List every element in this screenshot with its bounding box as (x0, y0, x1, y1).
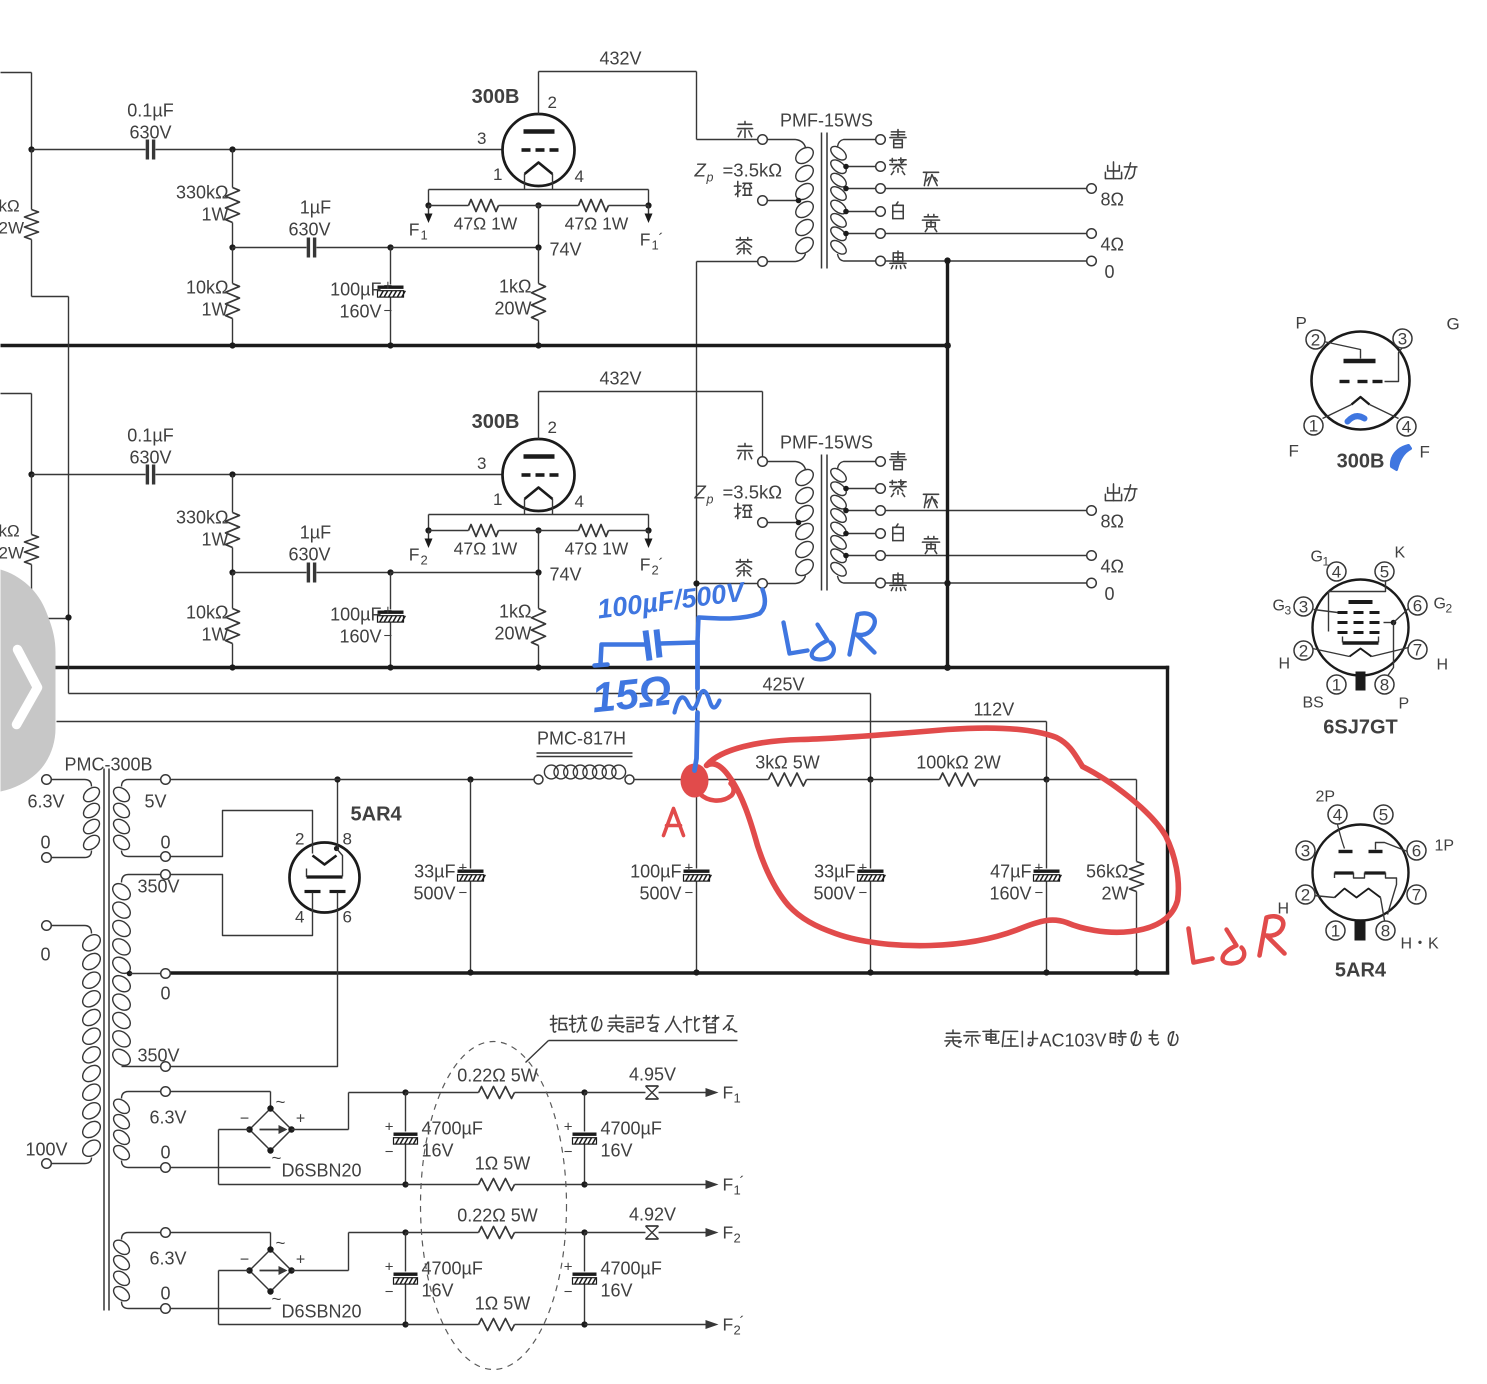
svg-text:0: 0 (1105, 584, 1115, 604)
terminal ch2 8Ω tap 灰 (876, 506, 886, 516)
pinout 300B plate bar and pin2 link (1344, 359, 1376, 363)
svg-text:0: 0 (161, 1284, 171, 1304)
svg-text:1P: 1P (1435, 838, 1455, 855)
svg-text:20W: 20W (494, 299, 531, 319)
svg-text:160V: 160V (989, 884, 1031, 904)
pinout 5AR4 diagram (1278, 789, 1455, 982)
svg-text:630V: 630V (129, 448, 171, 468)
blue annotation wire from 茶 down to added cap (700, 590, 765, 619)
terminal ch2 青 (876, 457, 886, 467)
svg-text:3: 3 (477, 454, 486, 473)
resistor ch2 hum-balance left 47Ω 1W (429, 530, 469, 532)
svg-text:F: F (723, 1223, 734, 1243)
svg-text:1: 1 (1309, 417, 1318, 436)
node ch2 filament center tap (535, 527, 541, 533)
fuse/measure point 4.95V (585, 1092, 646, 1094)
wire bridge 2 − output (219, 1270, 250, 1272)
label ch1 出力 outputs (1105, 162, 1121, 179)
svg-text:F: F (409, 545, 420, 565)
leader line for swap note (526, 1041, 549, 1063)
resistor ch1 divider lower 10kΩ 1W (232, 248, 234, 284)
terminal ch2 紫 (876, 484, 886, 494)
svg-text:300B: 300B (1337, 451, 1385, 473)
svg-text:1: 1 (1332, 676, 1341, 695)
svg-text:P: P (1296, 314, 1307, 333)
wire ch2 filament pins 1,4 (524, 499, 526, 515)
pinout 6SJ7GT pin 3 (1294, 597, 1313, 616)
svg-text:16V: 16V (601, 1281, 633, 1301)
wire ch1 茶 to B+ riser (697, 261, 758, 263)
transformer ch2 secondary winding (838, 462, 876, 469)
wire ch1 4Ω output (886, 233, 1087, 235)
terminal ch1 茶 primary B+ (758, 257, 768, 267)
fuse/measure point 4.92V (585, 1232, 646, 1234)
pinout 5AR4 pin 3 (1296, 841, 1315, 860)
pinout 5AR4 pin 8 (1376, 921, 1395, 940)
node ch2 10k bottom on ground bus (229, 664, 235, 670)
blue annotation added capacitor symbol (698, 618, 699, 642)
svg-text:100µF: 100µF (630, 862, 681, 882)
terminal ch2 橙 primary tap (758, 518, 768, 528)
svg-text:2W: 2W (0, 544, 24, 563)
svg-text:4: 4 (575, 167, 584, 186)
svg-text:PMF-15WS: PMF-15WS (780, 111, 873, 131)
node ch2 0-line to ground drop (944, 580, 950, 586)
svg-text:G: G (1434, 596, 1446, 613)
transformer PMC-300B core (103, 769, 105, 1311)
resistor ch1 grid leak 330kΩ 1W (232, 150, 234, 188)
svg-text:6SJ7GT: 6SJ7GT (1323, 717, 1397, 739)
svg-text:300B: 300B (472, 411, 520, 433)
svg-text:−: − (385, 1144, 394, 1161)
svg-text:1kΩ: 1kΩ (499, 602, 531, 622)
svg-text:0: 0 (161, 833, 171, 853)
svg-text:15Ω: 15Ω (590, 666, 674, 721)
svg-text:=3.5kΩ: =3.5kΩ (723, 160, 783, 181)
transformer PMC-300B secondary 6.3V winding B (161, 1228, 171, 1238)
transformer ch1 secondary winding (838, 140, 876, 147)
node ch1 100µF top (387, 244, 393, 250)
svg-text:−: − (240, 1111, 249, 1128)
capacitor ch1 bypass 100µF 160V (390, 248, 392, 285)
wire B+ riser from 茶 terminals down to node A (432V) (696, 262, 698, 780)
svg-text:G: G (1311, 549, 1323, 566)
svg-text:2: 2 (548, 418, 557, 437)
capacitor PSU 33µF 500V second (870, 780, 872, 869)
svg-text:+: + (296, 1111, 305, 1128)
pinout 300B pin 3 (1393, 329, 1412, 348)
node ch1 1k bottom on bus (535, 342, 541, 348)
wire ch2 plate pin2 to output transformer (538, 392, 540, 440)
ground drop from output 0 lines (thick) (946, 261, 949, 669)
svg-text:F: F (723, 1083, 734, 1103)
capacitor PSU 33µF 500V first (467, 776, 473, 782)
svg-text:−: − (1035, 885, 1044, 902)
svg-text:33µF: 33µF (814, 862, 855, 882)
wire ch2 0 output (886, 582, 1087, 584)
pinout 6SJ7GT pin 7 (1408, 640, 1427, 659)
svg-text:H: H (1279, 656, 1291, 673)
svg-text:47Ω 1W: 47Ω 1W (565, 214, 629, 234)
svg-text:−: − (384, 303, 393, 320)
arrow ch1 to F1´ (648, 206, 650, 214)
svg-text:330kΩ: 330kΩ (176, 183, 229, 203)
wire ch1 0 output (886, 260, 1087, 262)
svg-text:47Ω 1W: 47Ω 1W (454, 214, 518, 234)
node ch2 filament right F' (645, 527, 651, 533)
svg-text:1W: 1W (202, 530, 229, 550)
capacitor PSU 100µF 500V at node A (696, 780, 698, 869)
terminal ch1 4Ω tap 黄 (876, 229, 886, 239)
wire ch2 1µF line to 74V node (391, 572, 539, 574)
svg-text:6: 6 (1412, 842, 1421, 861)
svg-text:+: + (296, 1252, 305, 1269)
svg-text:~: ~ (272, 1290, 282, 1309)
svg-text:500V: 500V (413, 884, 455, 904)
wire 5AR4 pin 8 to B+ rail (337, 780, 339, 848)
svg-text:D6SBN20: D6SBN20 (282, 1161, 362, 1181)
pinout 5AR4 pin 5 (1374, 805, 1393, 824)
transformer ch1 core (821, 133, 823, 269)
svg-text:F: F (723, 1175, 734, 1195)
gray navigation overlay with chevron (1, 570, 56, 792)
svg-text:4: 4 (1332, 563, 1341, 582)
pinout 300B grid dashes and pin3 link (1340, 380, 1350, 383)
wire ch1 driver plate input from left edge (1, 72, 32, 74)
resistor PSU 100kΩ 2W (871, 779, 940, 781)
tube 5AR4 rectifier (290, 843, 360, 913)
svg-text:2W: 2W (0, 219, 24, 238)
node ch2 100µF bottom on bus (387, 664, 393, 670)
svg-text:1: 1 (493, 490, 502, 509)
arrow ch2 to F2´ (648, 531, 650, 539)
wire bridge 1 + output (292, 1129, 349, 1131)
svg-text:5AR4: 5AR4 (1335, 960, 1387, 982)
pinout 6SJ7GT pin 8 (1375, 675, 1394, 694)
wire B+ rail from 5V winding through filter (171, 779, 535, 781)
wire ch1 B+ riser jog (32, 296, 69, 298)
capacitor ch2 bypass 100µF 160V (390, 573, 392, 610)
svg-text:2W: 2W (1102, 884, 1129, 904)
svg-text:2: 2 (734, 1231, 741, 1246)
label 表示電圧はAC103V時のもの (945, 1030, 961, 1047)
pinout 6SJ7GT cathode bar (1343, 641, 1379, 645)
svg-text:47µF: 47µF (990, 862, 1031, 882)
svg-text:Z: Z (694, 160, 707, 181)
pinout 300B pin 2 (1306, 330, 1325, 349)
resistor ch2 driver plate load (kΩ 2W, cut at edge) (31, 475, 33, 535)
wire 112V screen feed line (57, 721, 1047, 723)
svg-text:+: + (384, 603, 393, 620)
wire ch2 driver plate input from left edge (1, 393, 32, 395)
terminal ch1 紫 (876, 162, 886, 172)
svg-text:4700µF: 4700µF (422, 1119, 483, 1139)
svg-text:G: G (1447, 315, 1460, 334)
node ch1 filament left F (425, 202, 431, 208)
svg-text:16V: 16V (422, 1281, 454, 1301)
wire ch1 grid line to 300B pin 3 (233, 149, 503, 151)
pinout 300B diagram (1289, 314, 1460, 473)
svg-text:7: 7 (1413, 641, 1422, 660)
pinout 6SJ7GT pin 5 (1375, 562, 1394, 581)
wire ch2 cathode to 74V node (538, 531, 540, 573)
transformer PMC-300B secondary 350V-0-350V winding (161, 870, 171, 880)
svg-text:8Ω: 8Ω (1101, 512, 1124, 532)
svg-text:PMC-817H: PMC-817H (537, 729, 626, 749)
svg-text:+: + (1035, 860, 1044, 877)
svg-text:5: 5 (1380, 563, 1389, 582)
svg-text:4.95V: 4.95V (629, 1065, 676, 1085)
svg-text:432V: 432V (599, 49, 641, 69)
svg-text:H: H (1437, 657, 1449, 674)
rectifier D6SBN20 bridge 2 (250, 1250, 292, 1292)
resistor filament 2 0.22Ω 5W (406, 1232, 479, 1234)
svg-text:kΩ: kΩ (0, 197, 20, 216)
terminal ch1 白 (876, 207, 886, 217)
svg-text:10kΩ: 10kΩ (186, 603, 228, 623)
svg-text:100µF: 100µF (330, 280, 381, 300)
resistor ch2 hum-balance right 47Ω 1W (539, 530, 579, 532)
svg-text:425V: 425V (763, 675, 805, 695)
svg-text:100V: 100V (26, 1140, 68, 1160)
svg-text:4: 4 (1402, 418, 1411, 437)
svg-text:F: F (640, 230, 651, 250)
wire ch2 茶 to B+ riser (697, 583, 758, 585)
svg-text:1Ω 5W: 1Ω 5W (475, 1294, 530, 1314)
svg-text:6.3V: 6.3V (150, 1108, 187, 1128)
resistor ch2 cathode 1kΩ 20W (538, 573, 540, 609)
transformer PMC-300B primary 6.3V winding (42, 775, 52, 785)
svg-text:1: 1 (1331, 922, 1340, 941)
svg-text:−: − (384, 628, 393, 645)
node 425V junction (867, 776, 873, 782)
transformer PMC-300B primary 100V winding (42, 921, 52, 931)
svg-text:1kΩ: 1kΩ (499, 277, 531, 297)
blue annotation added resistor squiggle (695, 642, 700, 689)
svg-text:4.92V: 4.92V (629, 1205, 676, 1225)
svg-text:H・K: H・K (1401, 936, 1440, 953)
blue marks on 300B pinout (1348, 416, 1365, 421)
pinout 5AR4 plate bars (1339, 850, 1353, 853)
svg-text:4700µF: 4700µF (601, 1119, 662, 1139)
node pin8 on rail (334, 776, 340, 782)
pinout 5AR4 heater W (1335, 889, 1381, 898)
tube 5AR4 filament (313, 856, 337, 865)
red annotation letter A (664, 809, 684, 836)
svg-text:3: 3 (1285, 604, 1292, 618)
red annotation loop around filter section (707, 728, 1179, 946)
svg-text:F: F (1420, 443, 1430, 462)
resistor ch2 divider lower 10kΩ 1W (232, 573, 234, 609)
red annotation circle at node A (681, 764, 709, 798)
svg-text:16V: 16V (601, 1141, 633, 1161)
node ch1 divider mid (229, 244, 235, 250)
svg-text:3: 3 (1299, 598, 1308, 617)
terminal ch1 青 (876, 135, 886, 145)
resistor filament 1 0.22Ω 5W (406, 1092, 479, 1094)
svg-text:112V: 112V (974, 700, 1015, 720)
pinout 5AR4 pin 1 (1326, 921, 1345, 940)
svg-text:1W: 1W (202, 625, 229, 645)
svg-text:p: p (706, 493, 714, 507)
resistor ch2 grid leak 330kΩ 1W (232, 475, 234, 513)
svg-text:33µF: 33µF (414, 862, 455, 882)
node ch1 0-line to ground drop (944, 258, 950, 264)
node ch2 filament left F (425, 527, 431, 533)
svg-text:1Ω 5W: 1Ω 5W (475, 1154, 530, 1174)
capacitor filament 2 second 4700µF 16V (581, 1229, 587, 1235)
svg-text:350V: 350V (138, 877, 180, 897)
svg-text:630V: 630V (288, 545, 330, 565)
tube ch2 300B triode (503, 439, 575, 511)
node 茶 ch2 joins riser (693, 580, 699, 586)
blue annotation LとR (784, 623, 808, 654)
svg-text:2P: 2P (1316, 789, 1336, 806)
svg-text:10kΩ: 10kΩ (186, 278, 228, 298)
svg-text:47Ω 1W: 47Ω 1W (565, 539, 629, 559)
svg-text:1µF: 1µF (300, 523, 331, 543)
svg-text:300B: 300B (472, 86, 520, 108)
svg-text:1W: 1W (202, 300, 229, 320)
wire ch2 B+ riser jog (32, 618, 69, 620)
svg-text:4: 4 (295, 908, 304, 927)
svg-text:74V: 74V (550, 565, 582, 585)
svg-text:´: ´ (659, 231, 664, 248)
svg-text:4Ω: 4Ω (1101, 235, 1124, 255)
svg-text:1: 1 (421, 228, 428, 243)
node A (choke output, 432V) (693, 776, 699, 782)
pinout 6SJ7GT key (1356, 672, 1366, 691)
terminal ch1 黒 (876, 256, 886, 266)
arrow filament 1 output F1 (659, 1092, 706, 1094)
ground bus PSU bottom (171, 971, 1170, 974)
dashed ellipse annotation around resistors (421, 1042, 567, 1370)
wire ch1 1µF line to 74V node (391, 247, 539, 249)
pinout 5AR4 pin 6 (1407, 841, 1426, 860)
svg-text:8: 8 (343, 830, 352, 849)
svg-text:5: 5 (1379, 806, 1388, 825)
svg-text:7: 7 (1412, 886, 1421, 905)
svg-text:6: 6 (343, 908, 352, 927)
svg-text:20W: 20W (494, 624, 531, 644)
svg-text:Z: Z (694, 482, 707, 503)
svg-text:−: − (240, 1252, 249, 1269)
svg-text:+: + (564, 1259, 573, 1276)
svg-text:3: 3 (477, 129, 486, 148)
svg-text:−: − (564, 1284, 573, 1301)
pinout 6SJ7GT internal plate bar (1349, 600, 1373, 604)
svg-text:2: 2 (548, 93, 557, 112)
pinout 300B filament and pin links (1352, 397, 1370, 405)
svg-text:3: 3 (1398, 330, 1407, 349)
pinout 6SJ7GT pin 6 (1408, 596, 1427, 615)
pinout 6SJ7GT heater (1350, 649, 1372, 657)
svg-text:D6SBN20: D6SBN20 (282, 1302, 362, 1322)
terminal ch1 8Ω tap 灰 (876, 184, 886, 194)
svg-text:4Ω: 4Ω (1101, 557, 1124, 577)
transformer PMC-300B secondary 6.3V winding A (161, 1087, 171, 1097)
node ch2 74V (535, 569, 541, 575)
node ch2 divider mid (229, 569, 235, 575)
svg-text:5V: 5V (145, 792, 167, 812)
svg-text:~: ~ (276, 1234, 286, 1253)
svg-text:G: G (1273, 598, 1285, 615)
terminal ch1 橙 primary tap (758, 196, 768, 206)
svg-text:K: K (1395, 545, 1406, 562)
svg-text:630V: 630V (129, 123, 171, 143)
capacitor PSU 47µF 160V (1046, 780, 1048, 869)
node ch1 10k bottom on ground bus (229, 342, 235, 348)
arrow filament 2 output F2 (659, 1232, 706, 1234)
svg-text:8: 8 (1380, 676, 1389, 695)
svg-text:8: 8 (1381, 922, 1390, 941)
svg-text:F: F (640, 555, 651, 575)
node 112V junction (1043, 776, 1049, 782)
wire ch1 filament pins 1,4 (524, 174, 526, 190)
resistor PSU bleeder 56kΩ 2W (1047, 779, 1137, 781)
svg-text:432V: 432V (599, 369, 641, 389)
rectifier D6SBN20 bridge 1 (250, 1109, 292, 1151)
svg-text:P: P (1399, 696, 1410, 713)
label 抵抗の表記を入れ替え (550, 1015, 567, 1032)
terminal ch2 黒 (876, 578, 886, 588)
svg-text:3: 3 (1301, 842, 1310, 861)
pinout 5AR4 cathode bars (1335, 871, 1354, 874)
arrow ch1 to F1 (428, 206, 430, 214)
svg-text:4: 4 (575, 492, 584, 511)
node ch1 driver plate junction (28, 146, 34, 152)
tube ch1 300B triode (503, 114, 575, 186)
capacitor filament 1 second 4700µF 16V (581, 1089, 587, 1095)
svg-text:+: + (459, 860, 468, 877)
pinout 5AR4 pin 2 (1296, 885, 1315, 904)
label ch2 出力 outputs (1105, 484, 1121, 501)
svg-text:F: F (409, 220, 420, 240)
wire heater winding 2 to bridge (171, 1232, 271, 1234)
pinout 6SJ7GT pin 4 (1327, 562, 1346, 581)
svg-text:56kΩ: 56kΩ (1086, 862, 1128, 882)
svg-text:+: + (685, 860, 694, 877)
svg-text:4700µF: 4700µF (601, 1259, 662, 1279)
pinout 5AR4 key (1355, 921, 1366, 941)
svg-text:630V: 630V (288, 220, 330, 240)
wire ch1 cathode to 74V node (538, 206, 540, 248)
pinout 300B pin 4 (1397, 417, 1416, 436)
svg-text:F: F (723, 1315, 734, 1335)
arrow ch2 to F2 (428, 531, 430, 539)
svg-text:74V: 74V (550, 240, 582, 260)
node ch1 100µF bottom on bus (387, 342, 393, 348)
svg-text:47Ω 1W: 47Ω 1W (454, 539, 518, 559)
svg-text:1W: 1W (202, 205, 229, 225)
resistor ch1 cathode 1kΩ 20W (538, 248, 540, 284)
capacitor filament 2 first 4700µF 16V (402, 1229, 408, 1235)
svg-text:´: ´ (740, 1314, 745, 1331)
svg-text:2: 2 (421, 553, 428, 568)
pinout 6SJ7GT pin 2 (1294, 641, 1313, 660)
capacitor ch2 coupling 0.1µF 630V (32, 474, 146, 476)
transformer ch2 core (821, 455, 823, 591)
svg-text:4700µF: 4700µF (422, 1259, 483, 1279)
svg-text:´: ´ (740, 1174, 745, 1191)
svg-text:1µF: 1µF (300, 198, 331, 218)
pinout 6SJ7GT pin 1 (1327, 675, 1346, 694)
svg-text:160V: 160V (339, 302, 381, 322)
svg-text:500V: 500V (639, 884, 681, 904)
svg-text:0: 0 (161, 1143, 171, 1163)
svg-text:0: 0 (41, 945, 51, 965)
svg-text:1: 1 (493, 165, 502, 184)
